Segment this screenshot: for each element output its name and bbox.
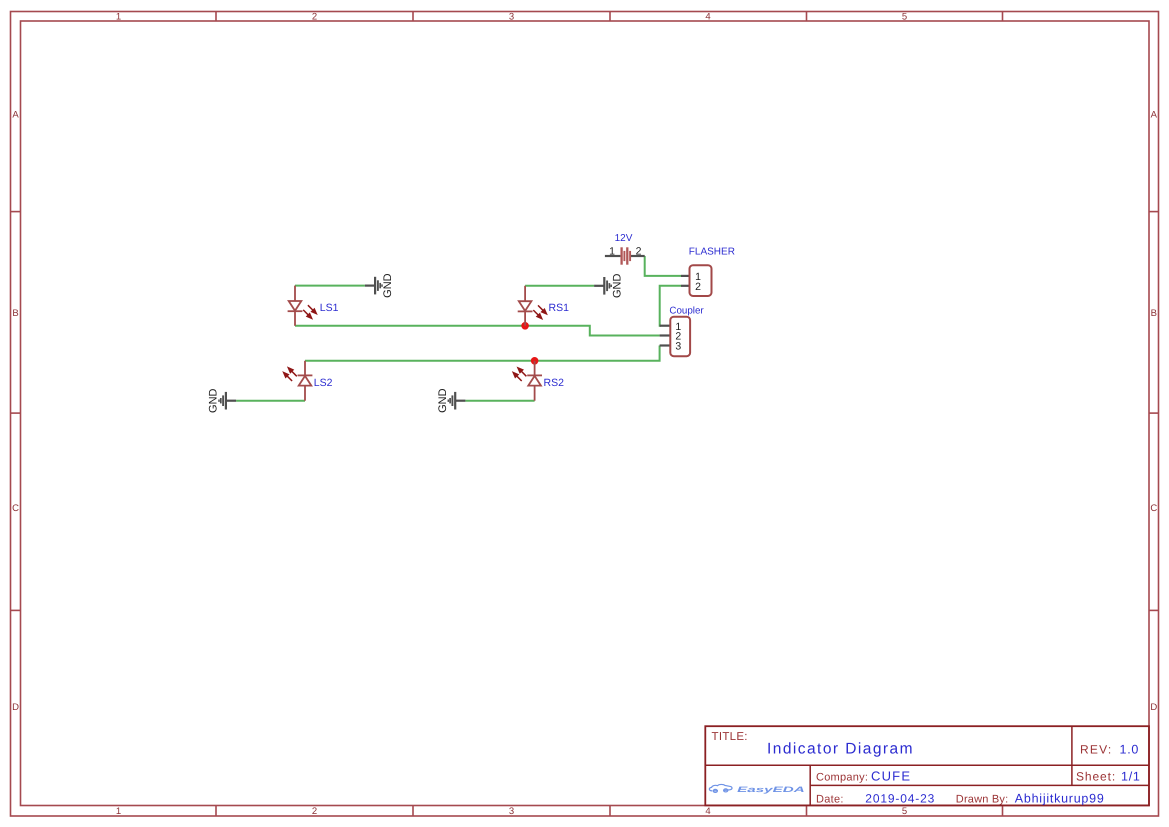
svg-text:D: D [12, 702, 19, 713]
svg-text:5: 5 [902, 806, 907, 817]
connector FLASHER [681, 265, 712, 296]
connector Coupler [660, 317, 691, 357]
svg-text:Coupler: Coupler [669, 305, 704, 316]
battery 12V [605, 245, 645, 264]
wire Coupler pin3 to LS2/RS2 top [305, 346, 660, 361]
LED LS2 (flipped) [283, 361, 312, 401]
junction RS2-LS2 net [531, 357, 539, 365]
wire LS2 bottom to GND [236, 400, 305, 402]
svg-text:Indicator Diagram: Indicator Diagram [767, 741, 914, 758]
svg-text:CUFE: CUFE [871, 768, 911, 783]
title block labels [712, 731, 1117, 806]
ground GND (net of LS2), left-facing [219, 392, 236, 410]
wire RS2 bottom to GND [465, 400, 534, 402]
EasyEDA logo [709, 784, 732, 792]
svg-text:Company:: Company: [816, 771, 868, 783]
svg-text:GND: GND [611, 274, 623, 299]
svg-text:2: 2 [636, 245, 642, 257]
svg-text:REV:: REV: [1080, 743, 1112, 757]
svg-text:1: 1 [609, 245, 615, 257]
svg-text:1/1: 1/1 [1121, 770, 1141, 784]
svg-text:D: D [1150, 702, 1157, 713]
svg-text:LS2: LS2 [314, 377, 333, 389]
svg-text:3: 3 [509, 11, 514, 22]
svg-text:RS1: RS1 [549, 302, 570, 314]
ground GND (net of RS2), left-facing [448, 392, 465, 410]
svg-text:TITLE:: TITLE: [712, 731, 748, 743]
svg-text:LS1: LS1 [320, 302, 339, 314]
ground GND (net of LS1), right-facing [365, 277, 382, 295]
svg-text:1: 1 [116, 11, 121, 22]
svg-text:3: 3 [675, 341, 681, 353]
wire battery pin2 to FLASHER pin1 [645, 256, 681, 276]
svg-text:Sheet:: Sheet: [1076, 770, 1116, 784]
wire RS1 top to GND [525, 285, 594, 287]
svg-text:B: B [1151, 308, 1157, 319]
ground GND (net of RS1), right-facing [594, 277, 611, 295]
svg-text:2019-04-23: 2019-04-23 [865, 791, 935, 805]
title block values [767, 741, 1141, 806]
svg-text:FLASHER: FLASHER [689, 246, 735, 257]
svg-text:RS2: RS2 [544, 377, 565, 389]
svg-text:2: 2 [695, 281, 701, 293]
svg-text:2: 2 [312, 806, 317, 817]
svg-text:5: 5 [902, 11, 907, 22]
svg-text:GND: GND [208, 388, 220, 413]
svg-text:GND: GND [437, 388, 449, 413]
svg-text:3: 3 [509, 806, 514, 817]
title block [705, 726, 1149, 805]
svg-text:B: B [12, 308, 18, 319]
wire LS1 bottom / RS1 bottom to Coupler pin2 [295, 326, 660, 336]
svg-text:A: A [1151, 110, 1158, 121]
wire LS1 top to GND [295, 285, 365, 287]
svg-text:Date:: Date: [816, 793, 844, 805]
LED RS2 (flipped) [513, 361, 542, 401]
svg-text:4: 4 [705, 806, 710, 817]
svg-text:2: 2 [312, 11, 317, 22]
svg-text:EasyEDA: EasyEDA [737, 785, 805, 794]
svg-text:A: A [12, 110, 19, 121]
svg-text:C: C [1150, 503, 1157, 514]
LED LS1 [288, 286, 317, 326]
svg-text:Drawn By:: Drawn By: [956, 793, 1009, 805]
svg-text:12V: 12V [615, 233, 633, 244]
svg-text:C: C [12, 503, 19, 514]
svg-text:4: 4 [705, 11, 710, 22]
junction RS1-LS1 net [521, 322, 529, 330]
svg-text:1.0: 1.0 [1120, 743, 1140, 757]
svg-text:GND: GND [382, 273, 394, 298]
LED RS1 [518, 286, 547, 326]
wire FLASHER pin2 to Coupler pin1 [660, 286, 681, 326]
svg-text:1: 1 [116, 806, 121, 817]
svg-text:Abhijitkurup99: Abhijitkurup99 [1015, 791, 1105, 805]
